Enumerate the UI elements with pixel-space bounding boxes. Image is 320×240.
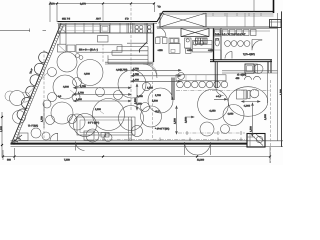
extension line x154	[154, 4, 156, 13]
chair 5	[141, 103, 150, 112]
X-brace void lower	[181, 28, 209, 36]
table label box	[77, 117, 135, 135]
svg-text:12,200: 12,200	[197, 159, 205, 162]
svg-text:1,670: 1,670	[80, 3, 86, 6]
wall stub x172	[172, 78, 174, 101]
small rect left a	[58, 44, 67, 52]
sink unit	[169, 44, 180, 54]
grid dash x44	[43, 50, 45, 138]
bottom dim ticks	[2, 156, 271, 158]
extra top band line	[163, 14, 274, 16]
table circle I	[119, 106, 144, 131]
svg-text:3´D: 3´D	[125, 18, 129, 21]
chair 14	[46, 116, 55, 125]
counter divider x120	[119, 23, 121, 33]
right circle b	[223, 105, 244, 126]
burner circles right pair	[148, 26, 151, 29]
top right box	[270, 20, 282, 28]
vertical x267.5 right room	[267, 73, 269, 103]
double door bottom	[185, 142, 211, 155]
chair 15	[68, 115, 77, 124]
kitchen partition x153.5	[153, 23, 155, 62]
bench stool 1	[177, 81, 184, 88]
bench stool 2	[184, 81, 191, 88]
door arc kitchen corner	[157, 27, 166, 36]
counter divider x134	[133, 23, 135, 33]
dim tick x131	[130, 3, 132, 5]
stair steps	[108, 43, 152, 63]
chair 8	[69, 114, 85, 130]
dim group B line2	[74, 94, 132, 96]
left grid line	[0, 29, 46, 33]
small rect left b	[67, 45, 75, 52]
centerline dash bottom	[95, 138, 247, 140]
dense cell lines	[129, 23, 133, 33]
kitchen counter band front edge	[58, 32, 154, 34]
bench stool 3	[192, 81, 199, 88]
counter divider x84	[83, 23, 85, 33]
wc frame	[214, 37, 221, 51]
bottom grid ticks	[103, 138, 241, 142]
door arc bottom a	[76, 142, 85, 151]
svg-text:1,500: 1,500	[174, 118, 177, 124]
svg-text:4,050: 4,050	[136, 103, 142, 106]
half chair b	[254, 76, 261, 80]
shelf line top right band	[205, 15, 274, 17]
diagonal wall inner	[14, 25, 64, 145]
stair verticals	[108, 46, 148, 63]
chair 3	[48, 93, 57, 102]
svg-text:59·>·9·-··(E·A··): 59·>·9·-··(E·A··)	[79, 48, 98, 51]
grid stub x254	[253, 0, 255, 11]
tiny chair dots	[76, 54, 80, 58]
dash ticks	[187, 131, 241, 135]
4F room island	[245, 64, 254, 73]
door arc wall stub	[216, 88, 224, 96]
vertical dim x137	[136, 84, 138, 110]
dim group B line1	[74, 87, 132, 89]
chair 12	[104, 134, 112, 142]
counter divider x110	[109, 23, 111, 33]
svg-text:1,050: 1,050	[137, 95, 143, 98]
svg-text:4,000: 4,000	[84, 73, 90, 76]
svg-text:⌀1,2: ⌀1,2	[155, 110, 160, 113]
svg-text:5-7´l··(6F·): 5-7´l··(6F·)	[88, 122, 99, 125]
counter divider x100	[99, 23, 101, 33]
band mullion ticks	[213, 13, 261, 16]
staff stool 4	[244, 41, 250, 47]
staff door	[252, 40, 262, 51]
left fixtures bottom	[31, 128, 41, 138]
corner diagonal to high band	[157, 11, 163, 21]
arrow left of ellipse	[214, 98, 227, 100]
chair 4	[114, 91, 123, 100]
below counter box	[98, 36, 109, 43]
kitchen counter band top edge	[58, 24, 154, 26]
svg-text:AV-7: AV-7	[96, 18, 102, 21]
counter lines right	[222, 71, 278, 73]
wall stub x216 below staff	[215, 62, 217, 89]
X-brace void upper	[160, 13, 206, 27]
ramp leader	[28, 73, 47, 94]
terrace door verticals	[129, 117, 132, 141]
staff stool 2	[231, 41, 237, 47]
svg-text:* 4F=5´7´(EA): * 4F=5´7´(EA)	[155, 127, 169, 130]
svg-text:´7D: ´7D	[157, 6, 161, 9]
locker rects top right	[215, 30, 221, 36]
counter divider x66	[65, 23, 67, 33]
vertical dim x44	[43, 103, 45, 128]
bottom wall bottom line	[11, 146, 284, 148]
big ellipse table	[228, 87, 268, 117]
fridge rounded	[169, 38, 179, 44]
staff stool 1	[225, 41, 231, 47]
equipment box detail	[101, 25, 110, 33]
chair extra	[43, 100, 51, 108]
svg-text:1,750: 1,750	[80, 85, 86, 88]
door arc bottom left	[50, 133, 58, 141]
svg-text:1,500: 1,500	[152, 100, 158, 103]
dash-dot line upper bottom	[178, 132, 245, 134]
dim tick x57	[56, 3, 58, 5]
svg-text:9E1 7-5: 9E1 7-5	[62, 18, 71, 21]
dim group A line1	[131, 69, 181, 71]
top wall left outer	[58, 21, 158, 23]
vertical dim x252.5	[252, 103, 254, 136]
bench stool 4	[199, 81, 206, 88]
chair 11	[132, 126, 143, 137]
bottom right box	[247, 134, 265, 148]
door arcs kitchen entry	[143, 64, 157, 78]
bottom wall thick	[11, 143, 248, 145]
chair 2	[73, 78, 82, 87]
svg-text:1,860: 1,860	[0, 126, 3, 132]
svg-text:(1,750): (1,750)	[120, 69, 128, 72]
svg-text:1,500: 1,500	[250, 126, 253, 132]
counter label box	[76, 45, 122, 52]
dim tick x50	[49, 3, 51, 5]
svg-text:1,750: 1,750	[41, 116, 44, 122]
table circle E	[93, 99, 125, 131]
dim arrow to ellipse	[242, 101, 261, 103]
svg-text:1,788: 1,788	[155, 94, 161, 97]
chair 6	[74, 114, 97, 137]
grid dash x152.5	[152, 63, 154, 139]
right wall outer	[281, 11, 283, 147]
vertical dim x176.5	[176, 106, 178, 134]
dim group B line3	[74, 100, 132, 102]
table circle F	[141, 106, 162, 127]
svg-text:+150: +150	[187, 49, 193, 52]
table circle C	[118, 70, 146, 98]
chair 7	[86, 129, 99, 142]
urinal	[215, 39, 219, 46]
locker rects extra	[237, 30, 243, 36]
svg-text:7l·-7´(EA): 7l·-7´(EA)	[28, 125, 38, 128]
grid dashed line x131	[130, 4, 132, 111]
right vertical dashed grid	[270, 80, 272, 163]
chair 13	[72, 93, 80, 101]
left edge dim	[1, 112, 3, 157]
staff partition x213.5	[213, 28, 215, 62]
tree petals along diagonal	[39, 52, 48, 63]
svg-text:1,400: 1,400	[133, 78, 139, 81]
table circle G	[51, 102, 73, 124]
high band top wall	[163, 10, 274, 12]
svg-text:4,050: 4,050	[228, 113, 234, 116]
staff stool 3	[238, 41, 244, 47]
table circle D	[148, 88, 173, 113]
staff door 2	[225, 52, 232, 59]
dim tick x154	[153, 3, 155, 5]
staff shelf line	[214, 30, 270, 32]
equipment hatch box	[196, 38, 208, 44]
svg-text:1,000: 1,000	[264, 114, 267, 120]
table circle H	[57, 52, 77, 72]
island circle	[254, 64, 263, 73]
bottom left rect	[19, 133, 28, 141]
platform edge lines	[105, 62, 154, 64]
ellipse inner rect b	[248, 91, 251, 99]
kitchen partition x147	[146, 23, 148, 42]
tree scallop circle a	[10, 91, 25, 106]
svg-text:2,000: 2,000	[185, 117, 188, 123]
chair 10	[142, 82, 150, 90]
chair 1	[48, 68, 57, 77]
svg-text:-1,050: -1,050	[209, 109, 216, 112]
vertical x254 band	[253, 13, 255, 27]
counter divider x75	[74, 23, 76, 33]
band verticals	[227, 13, 245, 27]
dark small rect	[220, 28, 222, 59]
top wall left inner	[58, 22, 158, 24]
svg-text:1,200: 1,200	[95, 108, 101, 111]
X-brace frame	[160, 13, 209, 37]
bench stool 5	[206, 81, 213, 88]
right circle a	[198, 89, 229, 120]
island small rect	[255, 64, 257, 73]
vertical dim right label	[185, 116, 194, 118]
corner diagonal inner	[159, 13, 165, 23]
svg-text:4,000: 4,000	[63, 86, 69, 89]
partition diagonal	[140, 42, 148, 53]
high band top inner	[163, 12, 274, 14]
counter band inner lines	[58, 26, 100, 30]
extension line x50	[49, 2, 51, 23]
tree scallop circle b	[13, 111, 26, 124]
staff bottom wall	[210, 60, 272, 62]
burner circles	[135, 26, 138, 29]
diagonal wall hatch	[12, 26, 62, 142]
svg-text:4l·-4(EA): 4l·-4(EA)	[237, 73, 246, 76]
svg-text:7;;7l·-4(BP): 7;;7l·-4(BP)	[243, 53, 255, 56]
ellipse inner circle	[250, 89, 259, 98]
light divider x103	[102, 44, 104, 62]
table circle A	[53, 75, 77, 99]
small rects in box	[101, 133, 105, 138]
dim tick x103	[102, 3, 104, 5]
chair 9	[178, 73, 185, 80]
counter divider x145	[144, 23, 146, 33]
extension line x103	[102, 4, 104, 22]
diagonal wall outer	[11, 23, 61, 143]
counter divider x127	[126, 23, 128, 33]
extension line x57	[56, 4, 58, 23]
counter box with cross	[59, 25, 66, 33]
inner wall line y27	[157, 26, 278, 28]
bench rect	[176, 75, 226, 81]
fixture tall	[185, 38, 192, 48]
bottom wall top line	[11, 140, 284, 142]
svg-text:1,750: 1,750	[133, 73, 139, 76]
thick grid stub x273	[273, 0, 275, 13]
bottom dim extensions	[3, 147, 270, 163]
top right box inner	[270, 20, 282, 28]
bottom left corner triangle	[11, 135, 22, 144]
chair 16	[96, 88, 105, 97]
wall stub right x271	[268, 60, 271, 73]
dim group A line2	[131, 75, 181, 77]
table circle B	[77, 60, 103, 86]
bench ticks	[186, 75, 216, 81]
small fixture rects	[156, 38, 161, 44]
centerline dash horizontal	[176, 89, 270, 91]
inner wall line y28.4	[157, 27, 278, 29]
svg-text:7,150: 7,150	[64, 159, 70, 162]
ellipse inner rect a	[237, 90, 247, 99]
counter right of sink	[193, 41, 213, 53]
svg-text:1,200: 1,200	[280, 89, 283, 95]
right wall inner	[277, 13, 279, 141]
top dimension line	[50, 3, 154, 5]
below counter verticals	[60, 33, 66, 44]
right small circle	[221, 125, 230, 134]
svg-text:1,500: 1,500	[147, 86, 153, 89]
half chair a	[245, 76, 252, 80]
svg-text:ε-1,0: ε-1,0	[216, 95, 222, 98]
bottom dim line	[3, 156, 270, 158]
counter divider x93	[92, 23, 94, 33]
svg-text:4,750: 4,750	[133, 67, 139, 70]
svg-text:-1,000: -1,000	[244, 104, 251, 107]
dim group A line3	[131, 80, 181, 82]
svg-text:+150: +150	[158, 49, 164, 52]
